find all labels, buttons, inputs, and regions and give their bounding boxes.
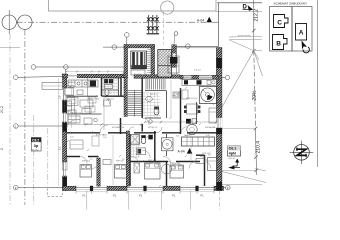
svg-text:GARD: GARD — [184, 134, 190, 137]
door arcs extra — [67, 70, 217, 169]
axis circle big 1 — [2, 15, 16, 29]
fence line vertical right of building — [218, 3, 220, 47]
dim chain left outside — [58, 78, 60, 186]
svg-text:F1: F1 — [113, 193, 117, 197]
svg-text:1,95: 1,95 — [103, 137, 107, 139]
dim extension lines — [222, 128, 256, 130]
left apt lower table — [70, 140, 83, 149]
tiles right bathroom — [143, 92, 161, 117]
svg-text:2: 2 — [0, 148, 4, 150]
west living sofa group — [68, 100, 93, 124]
west apartment table cluster — [65, 86, 84, 112]
legend shape A — [296, 24, 307, 41]
corridor square west — [104, 100, 111, 106]
stairwell upper flight treads — [147, 50, 151, 73]
arrow up below C6.1 — [236, 160, 238, 166]
sheet right border — [317, 0, 319, 167]
short boundary mark left — [0, 47, 20, 49]
svg-text:KL.SCH: KL.SCH — [134, 74, 142, 76]
dashed vertical x34 — [33, 115, 35, 205]
axis bubble stair top — [125, 33, 130, 38]
trellis symbols — [147, 15, 160, 34]
fan lines from slope point — [229, 40, 254, 51]
right wing shower box — [199, 87, 217, 104]
svg-text:20%: 20% — [252, 90, 258, 101]
legend shape C — [274, 15, 289, 28]
balcony slab left — [42, 83, 63, 90]
svg-text:granica terenu: granica terenu — [238, 34, 251, 37]
site boundary top — [49, 0, 217, 11]
svg-text:A: A — [299, 30, 304, 37]
label box C6.1 — [228, 146, 241, 156]
dim ticks — [252, 29, 258, 172]
small interior ticks texture — [67, 74, 215, 187]
wc left — [105, 90, 109, 96]
right wing kitchen top — [168, 56, 179, 73]
beds bottom rooms — [80, 165, 92, 178]
svg-text:F1: F1 — [139, 193, 143, 197]
stairwell block — [124, 45, 128, 78]
svg-text:2,5: 2,5 — [90, 159, 93, 161]
svg-text:3p: 3p — [34, 143, 39, 148]
lines below bottom wall — [87, 191, 220, 210]
svg-text:F1: F1 — [201, 193, 205, 197]
svg-text:SCHEMAT ZABUDOWY: SCHEMAT ZABUDOWY — [274, 2, 308, 6]
svg-text:3,1: 3,1 — [178, 164, 181, 166]
axis bubble above right wing — [174, 32, 178, 36]
svg-text:A-04: A-04 — [197, 18, 204, 22]
bathroom tiles west — [102, 79, 119, 95]
west partitions y114 x74 — [73, 96, 75, 114]
right wing round table — [187, 124, 197, 134]
right wing dark marks — [186, 119, 191, 124]
right wing table — [187, 104, 198, 114]
kitchen counters left apartment — [68, 80, 98, 87]
svg-text:B: B — [276, 41, 281, 48]
svg-text:C: C — [277, 19, 282, 26]
dim row above west wall — [66, 71, 124, 73]
svg-text:P.POK 5,1: P.POK 5,1 — [148, 127, 158, 129]
dashed axis near trellis — [163, 12, 165, 45]
washer right mid — [173, 92, 179, 98]
svg-text:SALON 21,4: SALON 21,4 — [70, 112, 82, 115]
svg-text:2,9: 2,9 — [150, 163, 153, 165]
svg-text:4pN: 4pN — [229, 151, 236, 155]
right mid sink — [146, 97, 153, 102]
svg-text:F1: F1 — [172, 193, 176, 197]
property boundary lines — [229, 35, 262, 38]
svg-text:C8.2: C8.2 — [32, 138, 39, 142]
right lower shower circle — [162, 164, 172, 174]
svg-text:WC 3,1: WC 3,1 — [150, 94, 158, 96]
svg-text:21,2: 21,2 — [0, 106, 4, 113]
axis bubble left A — [13, 75, 18, 80]
circled number west corridor — [94, 118, 98, 122]
exterior wall window openings — [62, 74, 222, 192]
svg-text:5,0 m2: 5,0 m2 — [194, 70, 201, 72]
svg-text:C6.1: C6.1 — [229, 147, 237, 151]
dimension line right — [253, 0, 255, 51]
svg-text:F1: F1 — [83, 193, 87, 197]
building exterior walls — [63, 74, 67, 191]
elevator shaft — [131, 51, 147, 69]
axis dashed horizontal — [17, 21, 219, 23]
terrace outline top right — [176, 45, 218, 47]
door arcs — [100, 96, 208, 164]
wardrobe grid right wing — [182, 137, 215, 146]
kitchen divider line — [87, 78, 89, 96]
table left living — [67, 98, 78, 106]
stairwell wall extension down — [124, 78, 127, 117]
axis bubble right 1 — [225, 75, 230, 80]
svg-text:86,1 m2: 86,1 m2 — [229, 158, 236, 160]
shower circle — [162, 138, 174, 151]
axis line y187.5 left — [18, 187, 63, 189]
window edge ticks bottom — [76, 191, 214, 194]
dashed vertical left — [9, 34, 11, 205]
micro texts rooms — [68, 74, 216, 165]
svg-text:POKOJ 16,2: POKOJ 16,2 — [88, 99, 100, 101]
axis line y126 left — [18, 125, 63, 127]
text row under mid wall — [70, 135, 211, 165]
svg-text:3,0: 3,0 — [122, 159, 125, 161]
svg-text:2,6: 2,6 — [208, 155, 211, 157]
axis bubble A top — [36, 66, 124, 68]
svg-text:212,2: 212,2 — [254, 9, 260, 22]
svg-text:SYPIALNIA: SYPIALNIA — [205, 126, 216, 129]
axis circle big 2 — [18, 15, 32, 29]
svg-text:SYP 11,2: SYP 11,2 — [148, 160, 157, 162]
wardrobes bottom — [103, 160, 111, 165]
north arrow — [290, 141, 313, 164]
axis bubble terrace — [186, 44, 191, 49]
corridor dim chain horizontal — [66, 79, 217, 130]
legend shape B — [273, 35, 288, 50]
boundary line top-right — [216, 10, 262, 12]
vent shaft crosshatched — [158, 50, 172, 78]
svg-text:2,20: 2,20 — [145, 137, 149, 139]
interior partition walls — [67, 78, 218, 187]
svg-text:3,48: 3,48 — [206, 135, 210, 137]
svg-text:210,4: 210,4 — [256, 141, 262, 154]
dashed rect bottom left — [48, 188, 63, 197]
svg-text:ANEKS: ANEKS — [68, 81, 75, 84]
svg-text:54,6m2: 54,6m2 — [32, 149, 40, 151]
wall right of shaft — [172, 45, 177, 68]
cursor icon — [302, 41, 308, 50]
vertical dim ticks inside rooms — [72, 80, 192, 185]
yard diagonals bottom right — [222, 172, 266, 183]
tiles central bathroom — [131, 134, 141, 158]
svg-text:A-04: A-04 — [178, 150, 185, 154]
appliances black left — [104, 79, 108, 84]
tree circle — [161, 1, 174, 14]
section arrow right — [228, 166, 234, 170]
sofa left — [68, 110, 76, 123]
stairs treads — [128, 79, 165, 117]
dashed vertical x48 — [47, 128, 49, 186]
svg-text:3,05: 3,05 — [176, 136, 180, 138]
kitchen counter right wing — [182, 80, 217, 86]
hatched partition walls bottom — [97, 158, 100, 186]
axis bubble right 2 — [222, 187, 226, 189]
right mid toilet — [154, 108, 159, 115]
svg-text:KUCHNIA 8,6: KUCHNIA 8,6 — [112, 126, 125, 129]
upper right room furniture — [209, 108, 217, 123]
label box C8.2 — [31, 138, 41, 152]
central bathroom fixtures — [131, 135, 140, 145]
svg-text:4,12: 4,12 — [70, 137, 74, 139]
